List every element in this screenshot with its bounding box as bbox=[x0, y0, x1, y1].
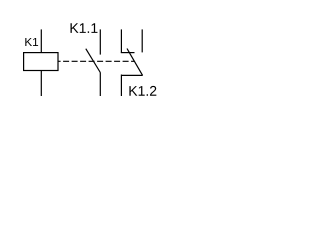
wire K1.1 bottom terminal bbox=[99, 73, 101, 97]
wire K1.2 bottom terminal bbox=[120, 75, 122, 97]
wire K1.2 left top terminal bbox=[120, 29, 122, 52]
wire K1.1 top terminal bbox=[99, 29, 101, 54]
label K1 bbox=[25, 38, 38, 46]
label K1.1 bbox=[71, 23, 98, 33]
wire right conductor top bbox=[141, 29, 143, 52]
label K1.2 bbox=[129, 86, 156, 96]
wire coil top terminal bbox=[40, 29, 42, 52]
coil K1 bbox=[24, 53, 58, 71]
mechanical linkage dashed line bbox=[58, 60, 61, 62]
contact K1.2 stop bar bbox=[121, 52, 135, 54]
contact K1.1 blade (NO) bbox=[86, 49, 101, 73]
contact K1.2 blade (NC) bbox=[127, 49, 143, 76]
wire coil bottom terminal bbox=[40, 71, 42, 97]
wire K1.2 bottom jog bbox=[121, 74, 142, 76]
